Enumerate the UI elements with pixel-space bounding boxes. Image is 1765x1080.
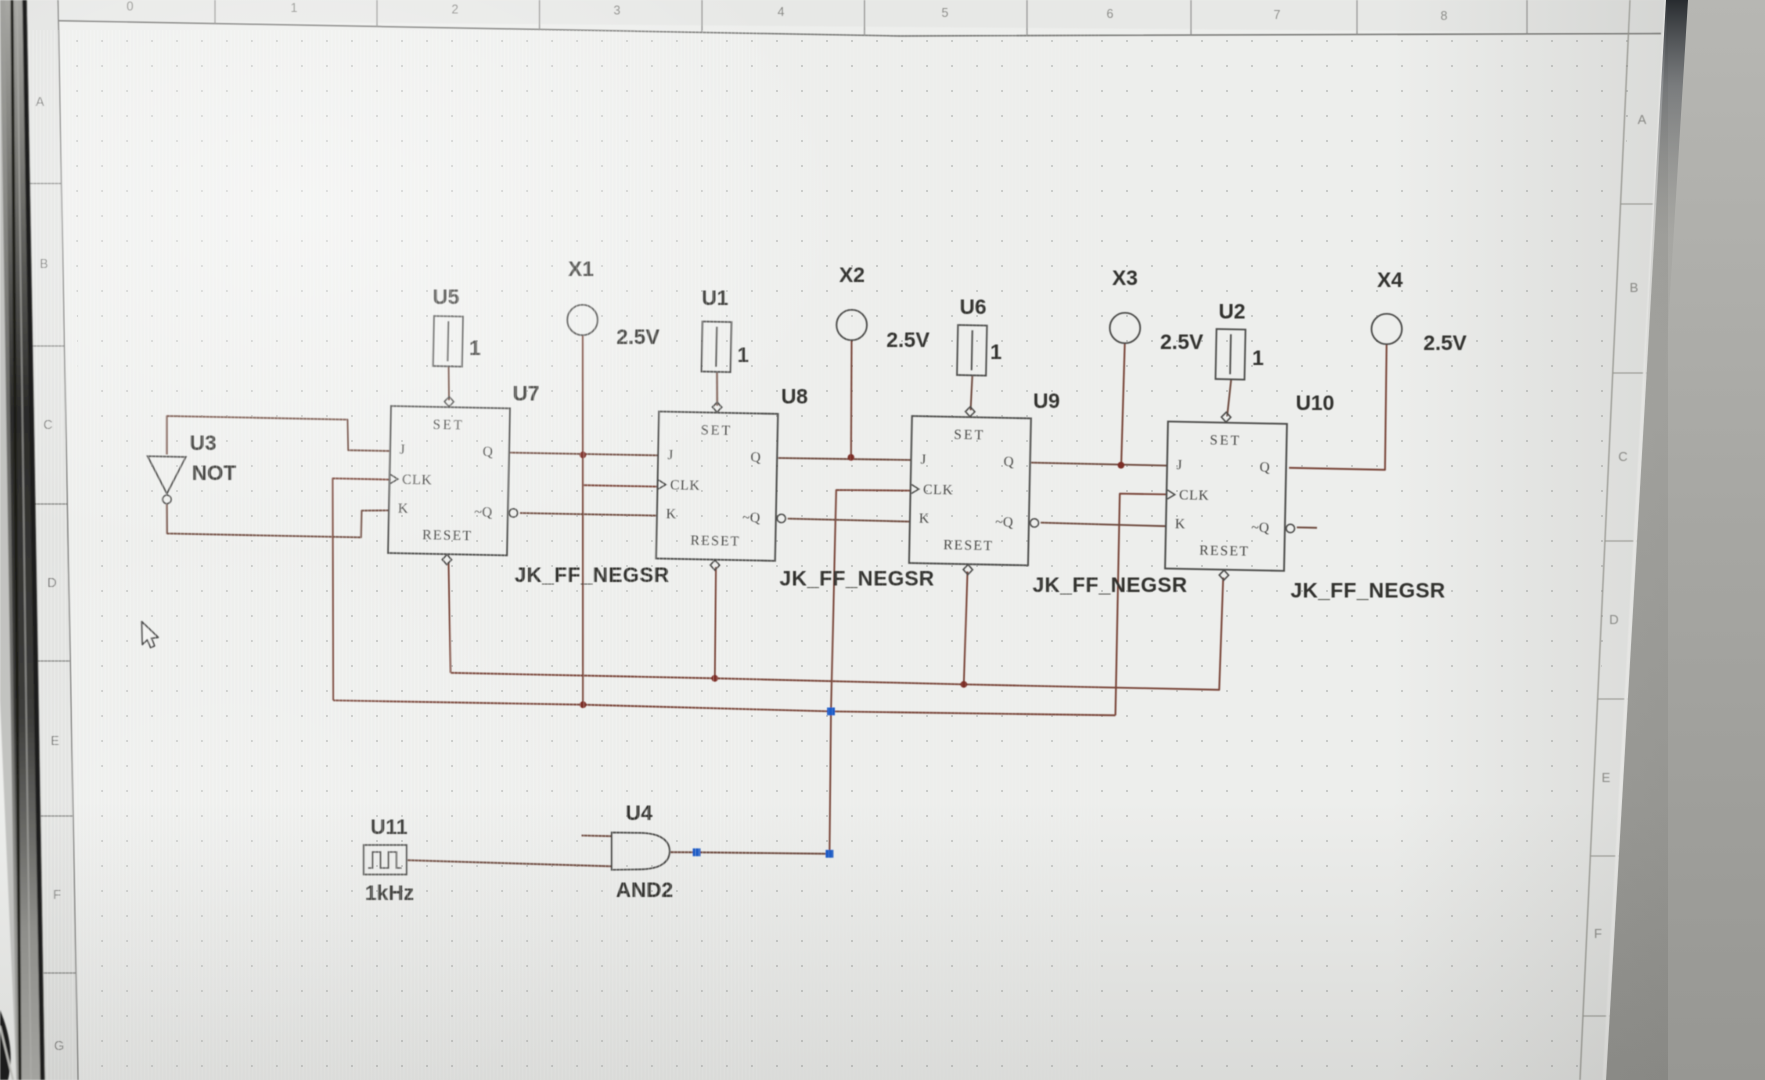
flip-flop U8 (JK_FF_NEGSR): [656, 401, 788, 572]
svg-text:6: 6: [1107, 7, 1114, 21]
svg-text:7: 7: [1274, 8, 1281, 22]
wire: U5 to U7 SET: [448, 366, 450, 400]
pull-up resistor U5: [433, 316, 463, 367]
svg-text:1: 1: [1252, 347, 1264, 370]
wire: AND2 output to riser: [670, 852, 830, 854]
flip-flop U10 (JK_FF_NEGSR): [1165, 411, 1297, 582]
wire: NOT U3 input to J of U7 (top loop): [167, 416, 391, 455]
wire: U1 to U8 SET: [716, 372, 718, 406]
wire: U9 RESET riser: [964, 572, 968, 685]
wire: AND2 input A stub: [582, 835, 612, 838]
wire: U7 RESET riser: [449, 562, 451, 673]
wire: U11 clock to AND2 input B: [407, 860, 612, 866]
junction X3/Q3-J4: [1118, 462, 1125, 469]
wire: clock feed to U7 CLK (riser x=333): [333, 478, 391, 700]
junction X2/Q2-J3: [848, 454, 855, 461]
probe X1: [567, 305, 597, 335]
junction X1/Q1-J2: [580, 452, 587, 459]
wire: ~Q1 to K2: [520, 513, 658, 516]
svg-text:2.5V: 2.5V: [1160, 331, 1203, 354]
wire: probe X2 vertical: [850, 340, 853, 458]
pull-up resistor U1: [701, 322, 731, 373]
wire: U6 to U9 SET: [971, 375, 973, 410]
wire: ~Q3 to K4: [1041, 523, 1167, 527]
wire: U8 RESET riser: [715, 567, 716, 678]
svg-text:U2: U2: [1219, 301, 1246, 324]
junction U8 reset/bus: [711, 675, 718, 682]
pull-up resistor U6: [957, 325, 987, 376]
probe X4: [1372, 314, 1402, 344]
wire: U2 to U10 SET: [1227, 379, 1231, 416]
pull-up resistor U2: [1215, 329, 1245, 380]
probe X2: [837, 310, 867, 340]
wire: probe X3 vertical: [1121, 343, 1125, 466]
clock source U11 1kHz: [364, 845, 407, 875]
wire: U10 Q to probe X4: [1289, 344, 1387, 470]
wire: NOT U3 output to K of U7 (bottom loop): [167, 504, 390, 537]
wire: Q1 branch to U8 CLK: [583, 485, 657, 486]
NOT gate U3: [148, 456, 186, 493]
node: bus junction endpoint: [827, 708, 835, 716]
flip-flop U9 (JK_FF_NEGSR): [909, 406, 1041, 577]
svg-text:X3: X3: [1112, 267, 1138, 290]
wire: Q1 to J2: [510, 453, 658, 456]
svg-text:U10: U10: [1296, 392, 1335, 415]
node: wire corner endpoint: [826, 850, 834, 858]
wire: Q3 to J4: [1031, 463, 1167, 466]
wire: ~Q2 to K3: [788, 519, 911, 522]
wire: clock bus line B across bottom: [333, 700, 1115, 715]
wire: ~Q4 stub: [1297, 526, 1317, 528]
svg-text:4: 4: [778, 5, 785, 19]
wire: Q2 to J3: [778, 458, 911, 460]
wire: AND2 output riser to bus and U9 CLK: [830, 490, 911, 854]
flip-flop U7 (JK_FF_NEGSR): [388, 396, 520, 567]
junction U9 reset/bus: [960, 681, 967, 688]
wire: probe X1 vertical (Q1 net): [582, 335, 584, 705]
node: AND2 output endpoint: [693, 848, 701, 856]
svg-text:5: 5: [942, 6, 949, 20]
probe X3: [1110, 313, 1140, 343]
wire: reset bus line A: [451, 578, 1224, 690]
wire: riser to U10 CLK: [1115, 494, 1166, 716]
AND2 gate U4: [612, 833, 670, 870]
mouse cursor: [142, 622, 159, 648]
junction X1/clock bus: [580, 701, 587, 708]
